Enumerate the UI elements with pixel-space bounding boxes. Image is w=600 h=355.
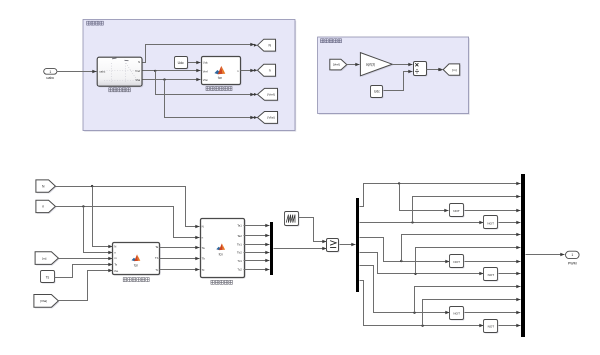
goto tag n <box>259 65 277 77</box>
constant Udc (region 1) <box>176 58 189 70</box>
constant Udc (region 2) <box>372 87 384 99</box>
wire Ts to fcn2 <box>55 265 113 278</box>
wire NOT3 to mux in7 <box>465 261 521 263</box>
svg-text:Udc: Udc <box>374 90 380 94</box>
wire mux to relop <box>274 248 327 250</box>
input port 1 uabc <box>44 69 57 75</box>
area 2 title (CJK smudge) <box>321 39 342 43</box>
wire demux3 to NOT3 <box>360 238 450 262</box>
svg-text:Tb: Tb <box>202 257 206 261</box>
svg-text:Vref: Vref <box>135 69 140 73</box>
wire demux1 direct to mux in1 <box>360 184 521 207</box>
wire T5 to mux <box>244 260 270 262</box>
subsystem icon plot sketch <box>104 63 139 82</box>
wire N to fcn3 <box>56 187 200 227</box>
wire demux2 to NOT2 <box>360 222 484 224</box>
wire branch to mux in6 <box>416 248 521 274</box>
area 2 background (modulation ratio region) <box>319 38 470 115</box>
area 1 title (CJK smudge) <box>87 21 104 25</box>
junction demux6 branch <box>421 325 423 327</box>
logical operator NOT5 <box>451 308 465 321</box>
svg-text:Ta2: Ta2 <box>237 234 242 238</box>
wire branch to NOT1 <box>400 184 449 211</box>
wire demux4 to NOT4 <box>360 253 484 274</box>
wire Vfai branch to goto Vfai <box>165 80 255 118</box>
junction demux1 branch <box>398 182 400 184</box>
from tag Vref (area2) <box>331 60 348 71</box>
svg-text:1: 1 <box>571 253 573 257</box>
svg-text:[Vfai]: [Vfai] <box>40 299 47 303</box>
demux (1 to 6) <box>356 198 359 292</box>
divide block <box>415 63 428 77</box>
svg-text:NOT: NOT <box>488 273 495 277</box>
MATLAB fcn small-sector-judgment <box>203 58 242 86</box>
wire Vfai to fcn2 <box>59 271 113 301</box>
from tag m <box>36 253 59 266</box>
wire relop to demux <box>340 244 356 246</box>
junction demux5 branch <box>413 312 415 314</box>
wire uabc to sector subsystem <box>57 71 97 73</box>
logical operator NOT4 <box>485 269 499 282</box>
svg-text:Ta1: Ta1 <box>237 224 242 228</box>
svg-text:N: N <box>114 244 116 248</box>
goto tag N <box>259 40 277 52</box>
from tag Vfai <box>35 296 60 309</box>
gain sqrt(3) <box>362 54 394 77</box>
goto tag Vref <box>259 90 279 102</box>
wire Vref branch to goto Vref <box>156 71 255 95</box>
wire Vref to gain <box>347 64 360 66</box>
mux (6 to 1) <box>270 222 273 275</box>
junction Vfai branch <box>163 78 165 80</box>
wire m to fcn2 <box>59 258 113 260</box>
svg-text:NOT: NOT <box>453 260 460 264</box>
svg-text:[m]: [m] <box>42 256 46 260</box>
junction demux2 branch <box>411 221 413 223</box>
wire Udc to fcn1 <box>188 62 201 64</box>
wire T6 to mux <box>244 269 270 271</box>
wire sawtooth to relop <box>299 218 327 242</box>
wire branch to mux in9 <box>415 287 521 313</box>
svg-text:[m]: [m] <box>452 68 456 72</box>
svg-text:Vfai: Vfai <box>203 78 208 82</box>
goto tag Vfai <box>259 113 279 125</box>
svg-text:1: 1 <box>49 70 51 74</box>
logical operator NOT3 <box>451 256 465 269</box>
wire Vref to fcn1 <box>143 70 201 72</box>
wire NOT6 to mux in12 <box>499 325 521 327</box>
wire mux to output PWM <box>526 254 565 256</box>
svg-text:sqrt(3): sqrt(3) <box>366 63 375 67</box>
wire Udc to divide <box>384 72 413 91</box>
logical operator NOT6 <box>485 321 499 334</box>
wire gain to divide <box>393 64 413 66</box>
svg-text:fcn: fcn <box>134 263 139 267</box>
wire n branch to fcn2 <box>84 207 113 253</box>
svg-text:Vfai: Vfai <box>135 78 140 82</box>
wire T2 to mux <box>244 235 270 237</box>
svg-text:Ta: Ta <box>202 246 205 250</box>
svg-text:uabc: uabc <box>46 76 54 80</box>
svg-text:n: n <box>42 205 44 209</box>
wire divide to goto m <box>427 69 443 71</box>
fcn3 caption (CJK smudge) <box>211 280 233 284</box>
svg-text:[Vref]: [Vref] <box>333 63 340 67</box>
subsystem caption (CJK smudge) <box>109 88 131 92</box>
relational operator &gt;= <box>328 240 340 253</box>
from tag N <box>37 181 57 193</box>
wire demux5 to NOT5 <box>360 266 450 313</box>
wire Ta <box>160 247 200 249</box>
wire NOT5 to mux in11 <box>465 312 521 314</box>
svg-text:NOT: NOT <box>488 325 495 329</box>
svg-text:Vref: Vref <box>203 69 208 73</box>
svg-text:Tc2: Tc2 <box>237 267 242 271</box>
junction Vref branch <box>154 70 156 72</box>
svg-text:Tb: Tb <box>155 256 159 260</box>
junction n branch <box>82 205 84 207</box>
svg-text:N: N <box>138 60 140 64</box>
wire demux6 to NOT6 <box>360 281 484 326</box>
svg-text:Tc1: Tc1 <box>237 259 242 263</box>
svg-text:the: the <box>114 269 118 273</box>
wire NOT1 to mux in3 <box>465 210 521 212</box>
svg-text:fcn: fcn <box>219 252 224 256</box>
svg-text:PWM: PWM <box>568 261 577 265</box>
svg-text:Ta: Ta <box>155 245 158 249</box>
wire Tc <box>160 269 200 271</box>
MATLAB fcn modulation-wave-calculation <box>202 220 246 279</box>
wire n to fcn3 <box>56 207 200 238</box>
wire T1 to mux <box>244 225 270 227</box>
from tag n <box>37 201 57 213</box>
wire NOT4 to mux in8 <box>499 273 521 275</box>
wire Tb <box>160 258 200 260</box>
logical operator NOT2 <box>485 217 499 230</box>
wire branch to mux in2 <box>413 197 521 223</box>
svg-text:Udc: Udc <box>203 61 209 65</box>
output port 1 PWM <box>566 251 580 258</box>
fcn1 caption (CJK smudge) <box>206 87 232 91</box>
wire branch to mux in10 <box>423 300 521 326</box>
repeating sequence sawtooth <box>286 213 300 227</box>
mux (12 to 1) big <box>521 174 525 337</box>
MATLAB fcn vector-time-calculation <box>114 244 161 276</box>
wire T4 to mux <box>244 252 270 254</box>
svg-text:Udc: Udc <box>178 61 184 65</box>
svg-text:n: n <box>269 69 271 73</box>
wire NOT2 to mux in4 <box>499 222 521 224</box>
wire N branch to fcn2 <box>93 187 113 247</box>
wire N out to goto N <box>143 45 255 63</box>
wire Vfai to fcn1 <box>143 79 201 81</box>
area 1 background (sector judgment region) <box>84 21 296 132</box>
goto tag m <box>444 65 461 76</box>
svg-text:NOT: NOT <box>487 221 494 225</box>
svg-text:[Vfai]: [Vfai] <box>267 116 274 120</box>
svg-text:Tb1: Tb1 <box>237 243 242 247</box>
constant Ts <box>42 272 56 284</box>
junction demux4 branch <box>414 273 416 275</box>
junction N branch <box>91 185 93 187</box>
svg-text:NOT: NOT <box>453 209 460 213</box>
wire T3 to mux <box>244 244 270 246</box>
svg-text:Tb2: Tb2 <box>237 251 242 255</box>
svg-text:N: N <box>202 224 204 228</box>
svg-text:Ts: Ts <box>46 276 50 280</box>
svg-text:[Vref]: [Vref] <box>267 93 274 97</box>
svg-text:fcn: fcn <box>218 76 223 80</box>
wire fcn1 n to goto n <box>241 70 255 72</box>
svg-text:uabc: uabc <box>99 70 106 74</box>
fcn2 caption (CJK smudge) <box>123 278 149 282</box>
wire branch to mux in5 <box>402 235 521 262</box>
logical operator NOT1 <box>451 205 465 218</box>
svg-text:NOT: NOT <box>453 312 460 316</box>
junction demux3 branch <box>400 260 402 262</box>
